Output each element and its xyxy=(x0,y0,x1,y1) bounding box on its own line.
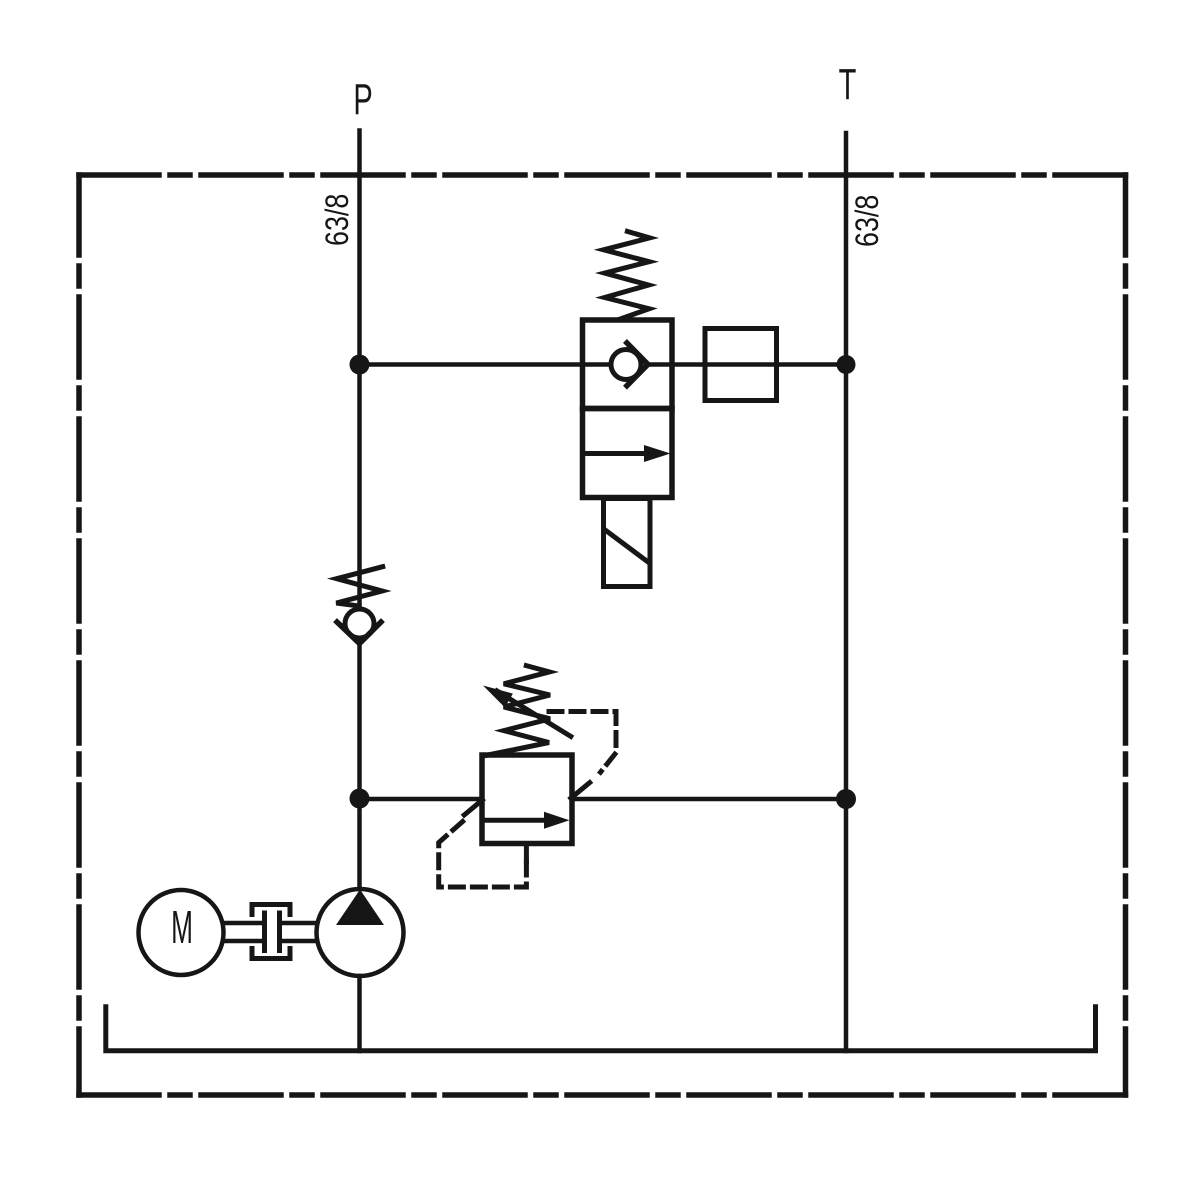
port T label xyxy=(839,59,857,109)
wire: T line xyxy=(844,133,849,1051)
relief valve RV1 outlet diagonal xyxy=(571,783,590,799)
relief valve RV1 inlet diagonal xyxy=(464,800,482,815)
valve V1 flow arrow (lower position) xyxy=(583,445,671,462)
pilot box right of valve V1 xyxy=(705,329,777,401)
svg-text:63/8: 63/8 xyxy=(850,195,886,247)
wire: lower horizontal line P junction to relief valve RV1 xyxy=(360,797,483,802)
pipe size label 63/8 at T line xyxy=(850,195,886,247)
tank return line (solid U) xyxy=(106,1007,1096,1051)
relief valve RV1 drain line (dashed loop) xyxy=(439,819,527,888)
valve V1 check valve ball (upper position) xyxy=(611,350,641,380)
pipe size label 63/8 at P line xyxy=(320,194,356,246)
relief valve RV1 flow arrow xyxy=(484,812,570,829)
relief valve RV1 body xyxy=(482,755,572,844)
valve V1 lower position box xyxy=(583,409,673,498)
port P label xyxy=(353,74,372,124)
svg-text:P: P xyxy=(353,74,372,124)
wire: upper horizontal line P junction to valve V1 xyxy=(360,362,612,367)
wire: lower horizontal line relief valve RV1 to T junction xyxy=(572,797,846,802)
relief valve RV1 adjustment arrow xyxy=(483,686,571,737)
pump P1 triangle xyxy=(336,890,384,926)
wire: P line upper segment xyxy=(357,131,362,610)
coupling inner bars xyxy=(265,913,280,951)
svg-text:T: T xyxy=(839,59,857,109)
svg-text:63/8: 63/8 xyxy=(320,194,356,246)
enclosure border (dash-dot boundary) xyxy=(79,175,1126,1095)
wire: pump suction to tank line xyxy=(357,976,362,1051)
wire: upper horizontal line valve V1 to T junction xyxy=(648,362,846,367)
shaft motor side (double line) xyxy=(225,923,265,941)
node: T lower junction xyxy=(836,789,856,809)
motor M1 letter xyxy=(171,901,193,953)
motor M1 circle xyxy=(139,890,224,975)
relief valve RV1 pilot line (dashed, to spring side) xyxy=(549,712,616,773)
valve V1 spring xyxy=(604,231,650,319)
relief valve RV1 drain stub xyxy=(524,844,529,862)
coupling outer bracket top xyxy=(252,905,290,915)
valve V1 check valve seat (upper position) xyxy=(627,343,648,386)
check valve CV1 spring xyxy=(336,567,382,606)
shaft pump side (double line) xyxy=(280,923,318,941)
wire: P line middle segment (check valve to lower junction and pump) xyxy=(357,644,362,890)
valve V1 solenoid coil xyxy=(604,499,651,587)
svg-text:M: M xyxy=(171,901,193,953)
check valve CV1 ball xyxy=(345,609,374,638)
check valve CV1 seat xyxy=(337,622,381,644)
node: P lower junction xyxy=(350,789,370,809)
coupling outer bracket bottom xyxy=(252,949,290,959)
node: P upper junction xyxy=(350,355,370,375)
valve V1 upper position box xyxy=(583,320,673,409)
pump P1 circle xyxy=(317,889,404,976)
node: T upper junction xyxy=(837,355,856,374)
relief valve RV1 spring xyxy=(483,666,550,756)
